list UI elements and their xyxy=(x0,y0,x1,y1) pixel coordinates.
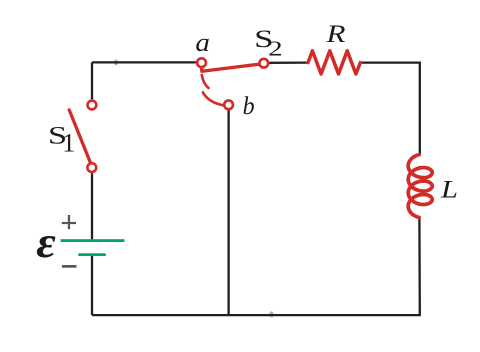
battery plus sign xyxy=(62,215,76,229)
switch S2 label S xyxy=(254,26,273,53)
svg-text:R: R xyxy=(325,21,345,48)
battery minus sign xyxy=(62,265,77,268)
switch S2 motion arc lower segment xyxy=(203,92,223,105)
junction mark on bottom wire xyxy=(269,311,273,317)
wire middle vertical node b to bottom xyxy=(227,110,229,315)
switch S2 motion arc upper segment xyxy=(202,75,209,88)
wire inductor to bottom wire xyxy=(92,218,420,316)
node a label xyxy=(195,28,210,57)
battery emf label xyxy=(36,218,56,267)
switch S2 blade with hinge stub xyxy=(202,64,260,71)
svg-text:a: a xyxy=(195,28,210,57)
node b label xyxy=(243,93,255,120)
wire battery to bottom xyxy=(91,256,93,315)
resistor R xyxy=(308,51,360,74)
switch S2 right contact xyxy=(259,59,268,68)
wire top-left segment xyxy=(92,61,196,63)
switch S1 label S xyxy=(48,123,67,150)
switch S2 label subscript 2 xyxy=(268,37,283,61)
switch S1 blade xyxy=(69,110,90,162)
wire top-right segment xyxy=(269,61,308,64)
switch S1 label subscript 1 xyxy=(62,129,75,158)
svg-text:2: 2 xyxy=(268,37,283,61)
junction mark on top wire xyxy=(114,59,118,65)
svg-text:b: b xyxy=(243,93,255,120)
resistor R label xyxy=(325,21,345,48)
inductor L label xyxy=(440,177,458,204)
battery positive plate xyxy=(61,239,125,242)
switch S1 top contact xyxy=(88,101,97,110)
node b contact xyxy=(224,100,233,109)
svg-text:ε: ε xyxy=(36,218,56,267)
wire S1 to battery xyxy=(91,173,93,239)
inductor L coil xyxy=(408,155,432,218)
svg-text:1: 1 xyxy=(62,129,75,158)
battery negative plate xyxy=(78,253,106,256)
switch S1 bottom contact xyxy=(87,163,96,172)
node a contact xyxy=(197,58,206,67)
wire resistor to top-right corner xyxy=(360,63,420,155)
svg-text:L: L xyxy=(440,177,458,204)
wire left-top segment xyxy=(91,62,93,99)
